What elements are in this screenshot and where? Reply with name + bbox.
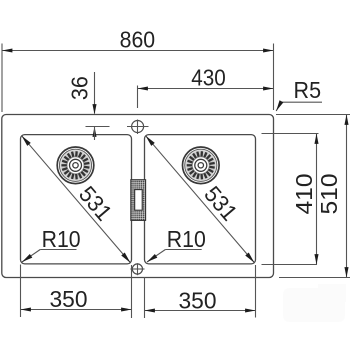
svg-text:R10: R10: [167, 226, 206, 252]
svg-text:R5: R5: [294, 77, 322, 103]
svg-text:510: 510: [316, 174, 342, 215]
svg-text:410: 410: [291, 174, 317, 215]
svg-text:860: 860: [120, 27, 156, 53]
svg-text:R10: R10: [42, 226, 81, 252]
svg-text:350: 350: [179, 288, 217, 314]
svg-text:350: 350: [50, 286, 88, 312]
svg-text:36: 36: [66, 76, 92, 100]
svg-text:430: 430: [191, 65, 226, 91]
